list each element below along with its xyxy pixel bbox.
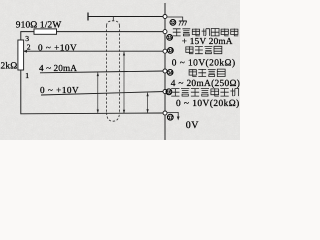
span arrow 0-10V (wire1 to 0V rail) (123, 52, 125, 114)
label speed-setting power supply (CJK) (173, 29, 181, 36)
wire terminal-strip vertical bus (164, 3, 166, 140)
svg-text:2kΩ: 2kΩ (1, 62, 18, 72)
terminal number 15 (167, 35, 173, 41)
scan background (0, 0, 240, 140)
span arrow 0-10V (wire3 to 0V rail) (147, 93, 149, 113)
svg-text:13: 13 (168, 48, 173, 53)
svg-text:15: 15 (167, 35, 172, 40)
svg-text:17: 17 (168, 115, 173, 120)
chassis ground at terminal 12 (167, 17, 187, 26)
svg-text:0 ~ +10V: 0 ~ +10V (38, 42, 77, 52)
svg-text:+ 15V 20mA: + 15V 20mA (182, 36, 233, 46)
potentiometer 2k (18, 40, 24, 70)
svg-text:16: 16 (167, 90, 172, 95)
wire 3: 0-10V to terminal 16 (41, 92, 165, 96)
wire 0V rail: pot pin1 down and right to terminal 17 (21, 70, 165, 114)
svg-text:0 ~ +10V: 0 ~ +10V (40, 85, 79, 95)
svg-text:4 ~ 20mA: 4 ~ 20mA (39, 63, 77, 73)
terminal 12 node (163, 15, 167, 19)
terminal number 16 (166, 89, 172, 95)
terminal number 14 (167, 70, 173, 76)
label main speed command 1 (CJK) (186, 46, 194, 53)
shield capsule tick (112, 17, 114, 22)
svg-text:2: 2 (27, 43, 31, 52)
terminal 16 node (163, 90, 167, 94)
svg-text:4 ~ 20mA(250Ω): 4 ~ 20mA(250Ω) (171, 79, 240, 89)
wiper arrowhead (23, 50, 27, 53)
terminal 14 node (163, 69, 167, 73)
svg-text:0 ~ 10V(20kΩ): 0 ~ 10V(20kΩ) (172, 58, 236, 68)
svg-text:910Ω 1/2W: 910Ω 1/2W (16, 21, 62, 31)
span arrow 4-20mA (wire2 to 0V rail) (97, 72, 99, 113)
terminal 13 node (163, 49, 167, 53)
terminal 17 node (163, 111, 167, 115)
svg-text:14: 14 (168, 70, 173, 75)
svg-text:1: 1 (25, 71, 29, 80)
resistor R 910ohm 1/2W (34, 29, 57, 34)
wire shield drain to terminal 12 (88, 16, 165, 18)
terminal number 17 (167, 114, 173, 120)
0V reference arrow at terminal 17 (167, 112, 178, 118)
wire 2: 4-20mA to terminal 14 (40, 71, 165, 73)
label main speed command 2 (CJK) (189, 69, 197, 76)
svg-text:0V: 0V (186, 120, 200, 131)
svg-text:12: 12 (171, 20, 176, 25)
terminal number 12 (170, 20, 176, 26)
wire +15V from terminal 15 through R1 to pot pin3 (57, 31, 166, 33)
svg-text:0 ~ 10V(20kΩ): 0 ~ 10V(20kΩ) (176, 99, 240, 109)
terminal 15 node (163, 30, 167, 34)
label multi-function analog input (CJK) (171, 89, 179, 97)
shield wire end bar (87, 13, 89, 21)
shield cable capsule (dashed) (107, 21, 120, 121)
wire 1: pot wiper to terminal 13 (0-10V) (23, 50, 165, 52)
terminal number 13 (168, 48, 174, 54)
